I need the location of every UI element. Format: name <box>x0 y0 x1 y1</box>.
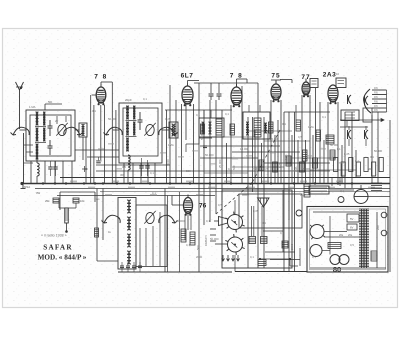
svg-text:0,1: 0,1 <box>312 255 316 259</box>
svg-text:0,5: 0,5 <box>280 231 284 235</box>
svg-text:0,1: 0,1 <box>370 155 374 159</box>
svg-text:RIMASTI: RIMASTI <box>204 235 208 246</box>
svg-text:RIV: RIV <box>374 101 378 104</box>
svg-text:0,1: 0,1 <box>250 255 254 259</box>
svg-text:10.000: 10.000 <box>254 166 258 175</box>
svg-text:MSA: MSA <box>24 185 30 189</box>
svg-text:50.000: 50.000 <box>210 237 219 241</box>
svg-text:7 8: 7 8 <box>230 73 244 80</box>
svg-text:2A3: 2A3 <box>323 72 336 79</box>
svg-text:0,1: 0,1 <box>143 97 147 101</box>
svg-text:76: 76 <box>199 203 207 210</box>
svg-text:RIV: RIV <box>374 87 378 90</box>
svg-text:0,1: 0,1 <box>186 243 190 247</box>
svg-text:0,1: 0,1 <box>322 115 326 119</box>
svg-text:0,1: 0,1 <box>225 112 229 116</box>
svg-text:25.000: 25.000 <box>176 219 185 223</box>
svg-text:AUT: AUT <box>300 193 306 197</box>
svg-text:0,1: 0,1 <box>337 147 341 151</box>
svg-text:50.000: 50.000 <box>108 117 117 121</box>
svg-text:0,1: 0,1 <box>152 191 156 195</box>
svg-text:pos: pos <box>95 197 100 201</box>
svg-text:500: 500 <box>186 169 191 173</box>
svg-text:20s: 20s <box>339 233 344 237</box>
svg-text:220: 220 <box>376 225 380 230</box>
svg-text:0,1: 0,1 <box>150 171 154 175</box>
svg-text:25k: 25k <box>45 199 50 203</box>
svg-text:10.000: 10.000 <box>240 147 249 151</box>
svg-text:RIV: RIV <box>374 109 378 112</box>
svg-text:0,1: 0,1 <box>262 221 266 225</box>
svg-text:2000: 2000 <box>290 243 294 250</box>
svg-text:0,1: 0,1 <box>228 167 232 171</box>
svg-text:50.000: 50.000 <box>200 131 204 140</box>
svg-text:25.000: 25.000 <box>218 159 222 168</box>
svg-text:25.000: 25.000 <box>270 137 279 141</box>
svg-text:2000: 2000 <box>196 255 203 259</box>
svg-text:500: 500 <box>196 245 200 250</box>
svg-text:50.000: 50.000 <box>205 153 214 157</box>
svg-text:1MA: 1MA <box>168 143 174 147</box>
svg-text:300: 300 <box>368 167 373 171</box>
svg-text:75: 75 <box>271 73 280 80</box>
svg-text:6L7: 6L7 <box>181 73 194 80</box>
svg-text:RIV: RIV <box>374 105 378 108</box>
svg-text:SAFAR: SAFAR <box>43 244 72 252</box>
svg-text:20s: 20s <box>348 233 353 237</box>
svg-text:5V: 5V <box>350 217 354 221</box>
svg-text:0,5: 0,5 <box>350 243 354 247</box>
svg-text:20pF: 20pF <box>125 98 132 102</box>
svg-text:0,1: 0,1 <box>282 122 286 126</box>
svg-text:« il radio 1938 »: « il radio 1938 » <box>41 234 67 238</box>
svg-text:RIV: RIV <box>374 92 378 95</box>
svg-text:1MA: 1MA <box>308 125 314 129</box>
svg-text:RIV: RIV <box>374 96 378 99</box>
svg-text:50t: 50t <box>48 100 52 104</box>
svg-text:0,5: 0,5 <box>218 203 222 207</box>
svg-text:20.000: 20.000 <box>302 167 311 171</box>
svg-text:0,25: 0,25 <box>165 117 171 121</box>
svg-text:0,25: 0,25 <box>284 154 288 160</box>
svg-text:0,1: 0,1 <box>92 109 96 113</box>
svg-text:0,5: 0,5 <box>298 135 302 139</box>
svg-text:0,1: 0,1 <box>340 189 344 193</box>
svg-text:7 8: 7 8 <box>94 74 108 81</box>
svg-text:0,1: 0,1 <box>355 159 359 163</box>
svg-text:50.000: 50.000 <box>374 149 382 153</box>
svg-text:0,1: 0,1 <box>196 113 200 117</box>
svg-text:0,25: 0,25 <box>344 152 350 156</box>
svg-text:0,5: 0,5 <box>84 167 88 171</box>
svg-text:300: 300 <box>120 173 125 177</box>
svg-text:50.000: 50.000 <box>330 143 339 147</box>
svg-text:0,5: 0,5 <box>255 127 259 131</box>
svg-text:0,5: 0,5 <box>264 167 268 171</box>
svg-text:10k: 10k <box>80 199 85 203</box>
svg-text:500: 500 <box>232 165 236 170</box>
svg-text:6V: 6V <box>350 226 354 230</box>
svg-text:4000: 4000 <box>166 159 170 165</box>
svg-text:MOD. « 844/P »: MOD. « 844/P » <box>38 254 87 262</box>
svg-text:0,25: 0,25 <box>253 209 259 213</box>
svg-text:3W: 3W <box>36 191 41 195</box>
svg-text:0,5: 0,5 <box>122 165 126 169</box>
svg-text:1.MA: 1.MA <box>29 105 36 109</box>
svg-text:0,1: 0,1 <box>206 219 210 223</box>
